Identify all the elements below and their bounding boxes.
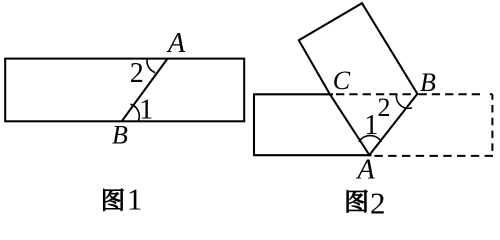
svg-text:2: 2 <box>370 186 386 219</box>
svg-text:2: 2 <box>130 58 144 89</box>
angle arc 2 at A (fig 1) <box>147 59 155 73</box>
caption glyph 图 (fig 2) drawn as path <box>347 190 368 212</box>
corner dash stub (fig 2 top-right) <box>490 93 493 95</box>
figure 2: solid part of strip (left) <box>254 94 372 155</box>
dashed top edge, C to B (fig 2) <box>336 93 411 95</box>
svg-text:A: A <box>166 28 186 59</box>
svg-text:1: 1 <box>364 110 378 141</box>
dashed top edge, B to right corner (fig 2) <box>419 93 485 95</box>
angle arc 1 at A (fig 2) <box>359 136 382 142</box>
figure 1: paper strip rectangle <box>5 59 244 122</box>
svg-text:A: A <box>355 154 375 185</box>
svg-text:1: 1 <box>127 181 143 216</box>
dashed right edge (fig 2) <box>491 94 493 151</box>
wire fold line AB (fig 1) <box>122 59 168 122</box>
svg-text:C: C <box>333 66 351 95</box>
dashed bottom edge A to right (fig 2) <box>374 155 493 157</box>
svg-text:B: B <box>112 121 128 150</box>
svg-text:2: 2 <box>378 93 391 122</box>
angle arc 1 at B (fig 1) <box>131 104 140 121</box>
angle arc 2 at B (fig 2) <box>396 94 412 109</box>
svg-text:B: B <box>420 68 436 97</box>
svg-text:1: 1 <box>139 94 153 125</box>
folded tilted rectangle (fig 2) <box>299 3 418 155</box>
caption glyph 图 (fig 1) drawn as path <box>103 189 123 211</box>
